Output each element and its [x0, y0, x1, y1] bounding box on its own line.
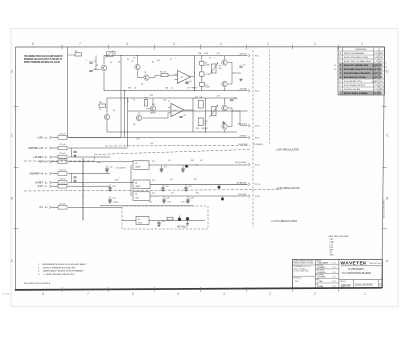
zone tick right 2	[382, 167, 387, 169]
wire Q1 emitter	[103, 71, 105, 90]
wire -5.2V feed	[68, 185, 110, 187]
svg-text:5: 5	[177, 292, 179, 296]
svg-text:ECN 2901 FINAL: ECN 2901 FINAL	[344, 92, 369, 95]
svg-text:L6 10uH: L6 10uH	[59, 179, 66, 181]
svg-text:C27: C27	[152, 193, 155, 195]
svg-text:C23: C23	[166, 198, 169, 200]
wire vertical node B	[201, 56, 203, 62]
svg-text:U4: U4	[135, 182, 137, 184]
capacitor C14	[73, 152, 76, 153]
svg-text:1uF: 1uF	[170, 179, 173, 181]
svg-text:Q8: Q8	[133, 124, 135, 126]
svg-text:-5.2V: -5.2V	[37, 185, 43, 188]
svg-text:R15: R15	[195, 97, 198, 99]
inductor L7	[58, 182, 67, 188]
svg-text:T.LEE: T.LEE	[317, 281, 323, 283]
ground G3	[73, 154, 76, 157]
svg-text:C17 2200/25V: C17 2200/25V	[116, 168, 127, 170]
connector pin terminal E4	[50, 160, 52, 163]
svg-text:-15V A (7): -15V A (7)	[237, 123, 247, 126]
revision row 4	[339, 64, 381, 67]
svg-text:3-78: 3-78	[332, 281, 335, 283]
transistor Q6	[104, 114, 109, 119]
revision table	[338, 47, 385, 95]
wire regulator input bus	[130, 165, 132, 196]
wire row3 output	[150, 195, 248, 197]
capacitor C23	[162, 198, 169, 201]
svg-text:BW: BW	[380, 77, 383, 79]
svg-text:R22: R22	[196, 192, 199, 194]
connector pin terminal E7	[50, 185, 52, 188]
wire output drop B	[239, 111, 241, 126]
ground G9	[161, 189, 164, 192]
wire Q7 top	[152, 98, 154, 105]
wire Q2-Q3 link	[137, 70, 139, 77]
inductor L2	[58, 144, 67, 150]
svg-text:C1: C1	[93, 61, 95, 63]
wire Q4-Q5 output	[228, 62, 232, 64]
zone tick bottom 5	[246, 287, 248, 292]
svg-text:C30: C30	[149, 202, 152, 204]
revision row 6	[339, 72, 381, 75]
polarized capacitor C18 blob	[185, 165, 188, 168]
svg-text:UNLESS OTHERWISE SPECIFIED: UNLESS OTHERWISE SPECIFIED	[293, 261, 313, 263]
svg-text:ECN 2301 C5 WAS 10uF: ECN 2301 C5 WAS 10uF	[344, 60, 372, 63]
svg-text:SHEET 1 OF 1: SHEET 1 OF 1	[341, 287, 350, 289]
svg-text:Q2: Q2	[131, 61, 133, 63]
wire Q1 collector	[103, 56, 105, 65]
wire block B mid	[128, 110, 248, 112]
svg-text:JM: JM	[380, 93, 383, 95]
capacitor C19	[108, 186, 115, 189]
wire +15V feed	[68, 137, 121, 139]
svg-text:PRESET: PRESET	[202, 128, 208, 130]
svg-text:+5 RET: +5 RET	[34, 181, 43, 184]
svg-text:L7 10uH: L7 10uH	[59, 182, 66, 184]
svg-text:U1: U1	[181, 77, 183, 79]
resistor U3 regulator	[133, 161, 149, 170]
svg-text:3: 3	[267, 42, 269, 46]
resistor R10	[99, 102, 106, 107]
svg-text:UNLESS OTHERWISE NOTED ALL RES: UNLESS OTHERWISE NOTED ALL RES	[43, 266, 76, 269]
zone tick bottom 4	[199, 287, 201, 292]
wire +15V lead	[52, 137, 59, 139]
capacitor C8	[179, 115, 185, 118]
svg-text:+C31 10uF: +C31 10uF	[181, 202, 189, 204]
connector pin pin P1-12	[248, 183, 250, 186]
svg-text:2-78: 2-78	[332, 267, 335, 269]
wire vertical node C	[192, 98, 194, 132]
svg-text:ECN 2815 CHG R30: ECN 2815 CHG R30	[344, 89, 361, 91]
svg-text:U6: U6	[138, 219, 140, 221]
svg-text:2N3906: 2N3906	[150, 113, 156, 115]
svg-text:7: 7	[79, 42, 81, 46]
transistor Q2	[135, 64, 140, 69]
number row divider 1	[352, 280, 354, 288]
svg-text:ECN 2215 REV CHG: ECN 2215 REV CHG	[344, 57, 368, 59]
ground G6	[160, 169, 163, 172]
polarized capacitor C31 blob	[178, 216, 181, 222]
resistor C2a	[200, 82, 205, 86]
svg-text:±15V REGULATOR: ±15V REGULATOR	[276, 148, 299, 152]
svg-text:2-78: 2-78	[332, 262, 335, 264]
svg-text:3-78: 3-78	[332, 286, 335, 288]
wire Q1 branch vertical	[95, 56, 97, 70]
svg-text:J: J	[340, 85, 341, 87]
wire vertical node D	[204, 98, 206, 132]
svg-text:D.SMITH: D.SMITH	[317, 272, 325, 274]
revision row 2	[340, 57, 383, 59]
zone tick top 6	[292, 45, 294, 50]
svg-text:C7: C7	[168, 101, 170, 103]
svg-text:C19: C19	[112, 186, 115, 188]
svg-text:L8 10uH: L8 10uH	[59, 203, 66, 205]
svg-text:165: 165	[200, 97, 203, 99]
ground G7	[181, 169, 184, 172]
ground G13	[186, 200, 189, 203]
svg-text:ECN 2511 ADD CR6 NOTE: ECN 2511 ADD CR6 NOTE	[344, 72, 371, 75]
svg-text:CAPACITANCE VALUES IN MICROFAR: CAPACITANCE VALUES IN MICROFARADS	[43, 270, 84, 273]
zone tick left 1	[14, 105, 19, 107]
svg-text:ECN 2730 ADD NOTE 4: ECN 2730 ADD NOTE 4	[344, 84, 366, 87]
svg-text:+5V: +5V	[38, 161, 43, 164]
svg-text:HI2 ONLY: HI2 ONLY	[177, 227, 188, 229]
svg-text:R19: R19	[137, 139, 140, 141]
inductor L6	[58, 179, 67, 185]
capacitor C17	[160, 167, 167, 170]
svg-text:5: 5	[173, 42, 175, 46]
svg-text:R3: R3	[118, 62, 120, 64]
wire +5V feed	[68, 161, 133, 163]
svg-text:C24: C24	[190, 198, 193, 200]
svg-text:R33: R33	[168, 202, 171, 204]
svg-text:C17: C17	[164, 167, 167, 169]
connector pin terminal E3	[50, 156, 52, 159]
connector pin terminal E6	[50, 181, 52, 184]
capacitor C18	[181, 167, 188, 170]
connector pin pin P1-13	[248, 195, 250, 198]
potentiometer R14	[210, 105, 219, 118]
wire AN/PWR +15 lead	[52, 147, 59, 149]
svg-text:DWG NO: DWG NO	[340, 281, 347, 283]
svg-text:2: 2	[314, 42, 316, 46]
svg-text:U3: U3	[135, 163, 137, 165]
svg-text:U2: U2	[174, 110, 176, 112]
svg-text:8: 8	[42, 292, 44, 296]
wire row1 output	[149, 164, 248, 166]
wire row2 output	[150, 183, 248, 185]
zone tick right 3	[382, 228, 387, 230]
svg-text:REF: ASSY 0101-00-0431 A: REF: ASSY 0101-00-0431 A	[24, 282, 51, 285]
resistor U4 regulator	[133, 180, 150, 189]
wire AN/PWR +5 lead	[52, 173, 59, 175]
op-amp U1	[175, 70, 191, 83]
svg-text:2: 2	[314, 292, 316, 296]
svg-text://..//: //..//	[371, 77, 376, 80]
revision row 8	[340, 81, 383, 84]
svg-text:JW: JW	[380, 57, 383, 59]
wire +5V lead	[52, 161, 59, 163]
svg-text:REVISIONS: REVISIONS	[356, 49, 368, 51]
svg-text:R10: R10	[99, 102, 102, 104]
wire Q10 bottom	[224, 130, 226, 132]
ground G1	[239, 78, 242, 81]
svg-text:R20: R20	[191, 160, 194, 162]
svg-text:C16: C16	[109, 167, 112, 169]
wire output stub A	[232, 72, 241, 74]
junction d7	[82, 184, 83, 185]
resistor R6	[200, 72, 204, 76]
svg-text:1: 1	[361, 42, 363, 46]
wire block B bottom	[107, 131, 237, 133]
wire output stub B2	[240, 125, 248, 127]
svg-text:3: 3	[269, 292, 271, 296]
wire -5.2 lead	[52, 206, 59, 208]
ground G4	[73, 180, 76, 183]
svg-text://..//: //..//	[371, 73, 376, 76]
op-amp U2	[168, 104, 184, 117]
wire C24 stub	[187, 196, 189, 199]
svg-text:C3: C3	[170, 59, 172, 61]
wire opamp U2 out	[184, 109, 193, 111]
junction d4	[127, 97, 128, 98]
inductor L4	[58, 158, 67, 164]
wire Q9 top	[224, 98, 226, 105]
svg-text:.1: .1	[214, 58, 215, 60]
connector pin terminal E8	[50, 206, 52, 209]
wire Q2 top	[137, 56, 139, 64]
zone tick bottom 3	[153, 287, 155, 292]
polarized capacitor C20 blob	[218, 184, 221, 188]
wire C19 stub	[109, 184, 111, 187]
transistor Q9	[222, 105, 227, 110]
svg-text:+15V (1): +15V (1)	[238, 54, 246, 56]
transistor Q3	[144, 75, 149, 80]
svg-text:C22: C22	[112, 198, 115, 200]
svg-text:L4 10uH: L4 10uH	[59, 158, 66, 160]
svg-text:0101-00-0431: 0101-00-0431	[355, 283, 373, 287]
wire -5.2V lead	[52, 185, 59, 187]
svg-text:L2 10uH: L2 10uH	[59, 144, 66, 146]
wire -15V rail	[104, 90, 248, 92]
svg-text:PRESET: PRESET	[191, 88, 197, 90]
junction d3	[124, 90, 125, 91]
svg-text:2-78: 2-78	[332, 272, 335, 274]
svg-text:C28: C28	[161, 221, 164, 223]
svg-text:4: 4	[220, 42, 222, 46]
svg-text:+5V AN (4): +5V AN (4)	[236, 182, 247, 185]
polarized capacitor C24 blob	[221, 196, 224, 201]
wire Q3 to R4	[150, 77, 155, 79]
svg-text:R.JONES: R.JONES	[317, 277, 326, 279]
junction d5	[194, 90, 195, 91]
inductor L1	[58, 134, 67, 140]
svg-text:.1: .1	[86, 60, 87, 62]
wire opamp out	[189, 76, 195, 78]
inductor L8	[58, 203, 67, 209]
capacitor C24	[186, 198, 193, 201]
wire +15 RET lead	[52, 156, 59, 158]
option boundary HI2 ONLY dashed box	[122, 206, 208, 229]
wire vertical node A	[193, 56, 195, 91]
wire feeder stub	[68, 54, 76, 56]
svg-text:BW: BW	[380, 65, 383, 67]
wire R11 to opamp U2	[142, 117, 168, 119]
svg-text:PRODUCTION RELEASE: PRODUCTION RELEASE	[344, 52, 364, 55]
junction d8	[82, 195, 83, 196]
svg-text:P1-12: P1-12	[255, 184, 260, 186]
transistor Q1	[101, 65, 106, 70]
wire +5 RET feed	[68, 182, 133, 184]
revision row 7	[339, 76, 381, 79]
zone tick bottom 6	[292, 287, 294, 292]
svg-text:REFERENCE DWG 0101-00-0431 ASS: REFERENCE DWG 0101-00-0431 ASSY	[43, 263, 88, 266]
connector pin pin P1-6	[248, 124, 250, 127]
svg-text:R2: R2	[127, 59, 129, 61]
svg-text://..//: //..//	[371, 65, 376, 68]
wire node B mid	[201, 65, 203, 72]
svg-text:LM309: LM309	[135, 167, 141, 169]
wire C16 stub	[106, 165, 108, 168]
zone tick bottom 1	[61, 287, 63, 292]
wire C20 stub	[162, 184, 164, 187]
svg-text:MODEL NO.: MODEL NO.	[293, 278, 302, 280]
zone tick bottom 2	[107, 287, 109, 292]
svg-text:L1 10uH: L1 10uH	[59, 134, 66, 136]
ground G14	[157, 224, 160, 227]
resistor R4	[160, 72, 168, 77]
ground G15	[186, 222, 189, 225]
wire link rows 2-3	[71, 148, 73, 157]
zone tick top 5	[246, 45, 248, 50]
svg-text:+: +	[119, 177, 120, 179]
wire +5 RET lead	[52, 182, 59, 184]
svg-text://..//: //..//	[371, 69, 376, 72]
capacitor C20	[161, 186, 168, 189]
connector boundary dashed line P2	[269, 50, 271, 145]
approval row DRAWN	[316, 259, 335, 264]
wire Q9-Q10 output	[228, 107, 232, 109]
svg-text:+: +	[119, 190, 120, 192]
inductor L3	[58, 153, 67, 159]
svg-text:3-78: 3-78	[332, 277, 335, 279]
revision row 10	[340, 89, 383, 91]
svg-text:8: 8	[32, 42, 34, 46]
drawing border frame right	[382, 47, 385, 288]
svg-text:BW: BW	[380, 89, 383, 91]
svg-text:D: D	[380, 283, 382, 287]
junction node A	[194, 72, 195, 73]
section divider line 1	[105, 144, 250, 147]
potentiometer R7	[210, 63, 219, 76]
svg-text:ECN 2688 REV TITLE: ECN 2688 REV TITLE	[344, 81, 362, 83]
resistor R11	[145, 98, 148, 106]
inductor L5	[58, 170, 67, 176]
wire block B top	[107, 97, 237, 99]
zone tick top 4	[199, 45, 201, 50]
wire C22 stub	[109, 196, 111, 199]
resistor R34	[167, 217, 173, 220]
ground G2	[222, 121, 225, 124]
resistor U5 regulator	[133, 192, 150, 201]
approval row REL APPRO	[316, 273, 335, 278]
svg-text:R8: R8	[188, 88, 190, 90]
svg-text:AN/PWR +15: AN/PWR +15	[27, 147, 44, 150]
svg-text:M.RAY: M.RAY	[317, 285, 324, 288]
drawing border frame top	[16, 46, 385, 48]
capacitor C21	[184, 186, 191, 189]
svg-text:4: 4	[223, 292, 225, 296]
approval row QA	[316, 283, 335, 288]
scanned sheet edge	[11, 29, 398, 307]
wire vertical bus 2	[124, 91, 126, 138]
resistor R1	[75, 51, 82, 56]
revision row 1	[340, 52, 383, 55]
svg-text:ECN 2377 ADDED R35: ECN 2377 ADDED R35	[344, 64, 369, 67]
svg-text:+15 RET: +15 RET	[33, 156, 43, 159]
connector pin terminal E5	[50, 172, 52, 175]
svg-text:6.8: 6.8	[200, 160, 202, 162]
ground G8	[108, 189, 111, 192]
wire link rows 5-6	[71, 174, 73, 183]
svg-text:0101-00: 0101-00	[341, 283, 351, 287]
title block frame	[292, 260, 382, 288]
svg-text:+5V ADJ: +5V ADJ	[239, 135, 248, 138]
svg-text:1000P: 1000P	[205, 86, 210, 88]
svg-text:Q6: Q6	[113, 110, 115, 112]
capacitor C4	[185, 81, 191, 84]
svg-text:R21: R21	[194, 179, 197, 181]
wire C28 stub	[158, 221, 160, 223]
svg-text:-5.2: -5.2	[39, 206, 44, 209]
svg-text:+2.6V REGULATOR: +2.6V REGULATOR	[276, 186, 300, 190]
svg-text:R1: R1	[75, 51, 77, 53]
title block vertical divider 1	[314, 260, 316, 288]
wire output stub B	[232, 110, 240, 112]
wire C18 stub	[182, 165, 184, 168]
svg-text:C21: C21	[188, 186, 191, 188]
connector pin pin P1-5	[248, 89, 250, 92]
svg-text:R4 2.2K: R4 2.2K	[160, 72, 167, 74]
junction d6	[205, 131, 206, 132]
svg-text:R9: R9	[127, 101, 129, 103]
resistor U6 regulator	[136, 217, 149, 225]
svg-text:ECN 2604 CHG C21 VAL: ECN 2604 CHG C21 VAL	[344, 76, 367, 79]
section divider line 2 stepped	[24, 150, 250, 162]
svg-text:-15V (5): -15V (5)	[239, 89, 247, 91]
svg-text:C4: C4	[189, 81, 191, 83]
svg-text:C4: C4	[334, 65, 336, 67]
svg-text:B.WEBB: B.WEBB	[317, 267, 325, 269]
svg-text:C4: C4	[209, 58, 211, 60]
connector pin pin P1-1	[248, 54, 250, 57]
revision row 9	[340, 84, 383, 87]
ground G11	[108, 200, 111, 203]
svg-text:6: 6	[132, 292, 134, 296]
wire Q6 collector	[106, 98, 108, 114]
zone tick top 1	[61, 45, 63, 50]
potentiometer R2	[105, 51, 114, 58]
svg-text:C26: C26	[152, 180, 155, 182]
svg-text:78L05: 78L05	[138, 222, 143, 224]
svg-text:U5: U5	[135, 194, 137, 196]
ground G5	[105, 169, 108, 172]
transistor Q8	[136, 115, 141, 120]
wire R4 to opamp	[168, 74, 178, 76]
svg-text:+15V: +15V	[37, 136, 43, 139]
svg-text:+/- DENOTES ADJ SELECTED: +/- DENOTES ADJ SELECTED	[43, 273, 75, 276]
capacitor C22	[108, 198, 115, 201]
